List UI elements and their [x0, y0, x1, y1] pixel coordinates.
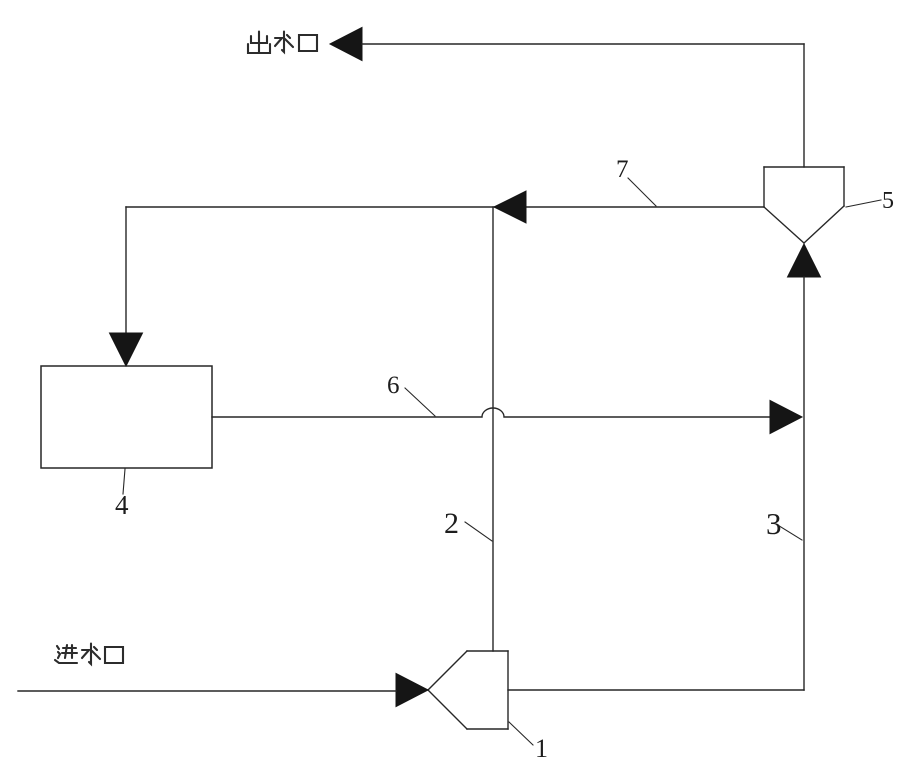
- wire inlet horizontal: [18, 690, 396, 692]
- label 6 leader: [405, 388, 435, 416]
- label 进水口 (water inlet): [55, 644, 123, 665]
- char 水: [82, 644, 100, 665]
- svg-text:1: 1: [535, 734, 548, 763]
- svg-text:3: 3: [766, 506, 782, 541]
- char 口: [105, 647, 123, 663]
- arrowhead outlet (left-pointing, filled): [330, 28, 362, 61]
- wire mid horizontal (recycle line): [126, 206, 764, 208]
- char 进: [55, 645, 77, 663]
- arrowhead inlet (right-pointing, filled): [396, 674, 428, 707]
- arrowhead mid (left-pointing, filled): [494, 191, 526, 223]
- wire outlet top horizontal: [362, 43, 804, 45]
- component 5 funnel (hopper): [764, 167, 844, 243]
- wire right vertical (top, into component 5): [803, 44, 805, 167]
- svg-text:6: 6: [387, 372, 400, 399]
- label 2 leader: [465, 522, 492, 541]
- svg-text:5: 5: [882, 188, 894, 214]
- wire left vertical down to box 4: [125, 207, 127, 334]
- label 7 leader: [628, 178, 656, 206]
- arrowhead up into funnel (filled): [788, 244, 821, 277]
- char 口: [299, 35, 317, 51]
- label 3 leader: [776, 524, 802, 540]
- wire bottom horizontal (component 1 to right vertical): [508, 689, 804, 691]
- arrowhead down into box 4 (filled): [110, 333, 143, 366]
- svg-text:4: 4: [115, 490, 129, 520]
- label 出水口 (water outlet): [248, 32, 317, 54]
- wire right vertical (funnel to bottom corner): [803, 277, 805, 690]
- component 4 rectangle box: [41, 366, 212, 468]
- wire 2 vertical (component 1 to mid line): [492, 207, 494, 651]
- char 水: [275, 32, 293, 53]
- svg-text:2: 2: [444, 507, 459, 540]
- wire 6 horizontal from box 4 with hop over vertical wire 2: [212, 408, 771, 417]
- arrowhead right at wire 3 (filled): [770, 401, 802, 434]
- component 1 pump body (pentagon): [428, 651, 508, 729]
- label 1 leader: [509, 722, 533, 745]
- label 4 leader: [123, 469, 125, 494]
- char 出: [248, 32, 270, 54]
- label 5 leader: [846, 200, 881, 207]
- svg-text:7: 7: [616, 156, 629, 183]
